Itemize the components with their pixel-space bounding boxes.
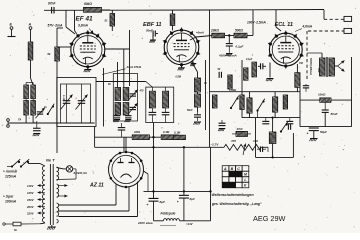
svg-text:220V etwa: 220V etwa: [137, 221, 153, 225]
coil L11 osc a: [24, 101, 29, 116]
label R7 500&#937;: [235, 29, 243, 33]
wire right riser x210.5: [209, 147, 211, 221]
capacitor C3 screen bypass: [226, 36, 233, 53]
label tiny i: [187, 109, 193, 112]
speaker arrow symbol: [334, 61, 345, 72]
wire EF41 right pin to node: [105, 48, 130, 50]
transformer T1 secondary HV winding: [57, 203, 59, 216]
wire EF41 pin risers: [104, 62, 118, 127]
transformer T1 secondary small winding: [57, 220, 59, 223]
coil L10 antenna RF b: [31, 85, 36, 99]
wire dashed output bottom: [308, 30, 344, 32]
wire output left vertical: [299, 82, 301, 127]
label C20 8uF: [190, 197, 195, 201]
svg-text:4,6mA: 4,6mA: [302, 25, 313, 29]
coil L15 osc pack b1: [123, 88, 129, 101]
wire AGC line: [95, 136, 185, 138]
coil L1 antenna coupling: [28, 42, 33, 60]
svg-text:8μF: 8μF: [160, 200, 165, 204]
resistor R10: [252, 62, 257, 77]
wire T2 top leads: [307, 53, 322, 58]
svg-text:125mA: 125mA: [5, 175, 17, 179]
svg-text:≈0mA: ≈0mA: [196, 31, 204, 35]
variable capacitor VC1: [61, 84, 73, 123]
resistor R13 AVC: [228, 75, 232, 89]
terminal pickup left: [7, 119, 10, 128]
svg-text:AEG 29W: AEG 29W: [253, 214, 286, 223]
terminal speaker plug 2: [344, 28, 352, 33]
coil L4 IF2 primary: [192, 62, 201, 95]
svg-text:K: K: [244, 184, 247, 188]
wire feedback bottom: [256, 156, 294, 158]
coil L13 osc pack a1: [115, 88, 121, 101]
wire feedback right riser: [292, 133, 294, 157]
label -2.7V: [211, 143, 220, 147]
fuse F1 mains: [3, 222, 45, 232]
switch S1 band switch: [47, 104, 55, 115]
resistor R8 tone: [320, 98, 331, 102]
label R15: [134, 130, 141, 134]
wire EF41 control grid to left bus: [57, 46, 71, 48]
transformer T2 secondary: [329, 58, 335, 76]
wire tap 150V: [27, 198, 45, 202]
svg-text:Feldspule: Feldspule: [161, 212, 176, 216]
svg-text:97nF: 97nF: [48, 2, 56, 6]
coil L7 IF1 primary: [149, 91, 155, 108]
label tiny g: [108, 83, 111, 86]
capacitor C4 tone: [322, 100, 329, 127]
switch S5 contact: [280, 122, 288, 133]
wire EF41 grid drop b: [75, 10, 77, 33]
wire R7 to B+ drop: [247, 35, 253, 37]
coil L16 osc pack b2: [123, 103, 129, 116]
wire AZ11 top to B+ line: [125, 137, 127, 152]
resistor R3 AVC on left bus: [55, 47, 60, 61]
wire R8 right lead: [331, 99, 352, 101]
transformer T1 secondary heater winding: [57, 184, 59, 197]
label Feldspule: [161, 212, 176, 216]
svg-text:47nF: 47nF: [236, 127, 244, 131]
capacitor C14 IF1: [162, 108, 170, 123]
trimmer TC3: [128, 103, 137, 114]
svg-text:150: 150: [299, 62, 304, 65]
wire left bus top tick: [57, 27, 63, 29]
svg-text:+: +: [147, 203, 149, 207]
label 2mA 47k&#937; leader: [102, 65, 142, 75]
wire vertical x242: [241, 60, 243, 118]
wire HV feed b: [59, 187, 130, 212]
label VR1 470: [230, 139, 236, 143]
potentiometer VR1 zigzag: [0, 0, 1, 1]
label tiny f: [299, 62, 304, 65]
svg-text:6,3V/0,3A: 6,3V/0,3A: [74, 171, 87, 175]
coil L2 AF choke: [247, 92, 252, 118]
resistor R15 4M: [132, 135, 149, 140]
wire rail drop to ECL11: [276, 10, 281, 31]
label C4 50nF: [331, 112, 338, 116]
wire AGC to AZ11 top: [123, 137, 125, 151]
svg-text:125V: 125V: [27, 191, 35, 195]
svg-text:40: 40: [203, 82, 207, 85]
wire pilot top lead: [57, 168, 67, 169]
wire rail drop to R5: [172, 10, 174, 14]
wire B+ node vertical x153.5: [152, 123, 154, 199]
wire front bus: [26, 115, 33, 123]
wire output bottom: [300, 126, 352, 128]
wire AZ11 cathode line: [144, 171, 211, 191]
wire HV feed a: [59, 185, 117, 206]
coil L12 osc b: [31, 101, 36, 116]
label 3.8mA with arrow: [78, 24, 94, 34]
resistor R17: [174, 130, 186, 139]
ground C2: [149, 37, 156, 43]
resistor R7 decoupler: [234, 33, 247, 38]
svg-text:5k: 5k: [47, 52, 51, 56]
resistor R11 cathode: [295, 64, 300, 92]
svg-text:100V–2,5mA: 100V–2,5mA: [247, 20, 266, 24]
table wave switch positions: [222, 166, 249, 188]
svg-text:500Ω: 500Ω: [235, 29, 243, 33]
label tiny b: [176, 76, 182, 79]
svg-text:Ne T: Ne T: [46, 157, 55, 162]
capacitor C10: [194, 112, 201, 121]
tube V2 EBF11 duo-diode pentode: [163, 28, 200, 68]
wire coil links: [26, 83, 33, 101]
capacitor C2 grid bypass: [153, 31, 158, 40]
label tube V4 AZ11: [89, 183, 104, 189]
svg-text:ges. Wellenschalterstlg. „Lang: ges. Wellenschalterstlg. „Lang“: [211, 202, 262, 206]
switch S4 mains on-off: [7, 159, 29, 167]
svg-text:≈ normal: ≈ normal: [3, 169, 17, 173]
wire pot right: [260, 147, 268, 152]
svg-text:M: M: [244, 173, 247, 177]
svg-text:3,8mA: 3,8mA: [78, 24, 89, 28]
svg-text:+: +: [177, 200, 179, 204]
wire mains to primary top: [28, 164, 45, 167]
label C3 0.1uF: [236, 44, 244, 48]
svg-text:50nF: 50nF: [146, 29, 153, 33]
ground C16: [113, 120, 120, 123]
switch S3: [230, 96, 239, 109]
label Wellenschalterstellungen: [212, 193, 254, 197]
resistor R5 plate feed: [170, 14, 175, 26]
svg-text:2mA 47kΩ: 2mA 47kΩ: [126, 65, 142, 69]
label normal current: [3, 169, 17, 178]
capacitor C9: [286, 118, 293, 124]
label right voltage: [186, 222, 194, 226]
resistor R12: [283, 95, 287, 109]
svg-text:50nF: 50nF: [331, 112, 338, 116]
label AEG 29W: [253, 214, 286, 223]
svg-text:200V: 200V: [26, 205, 35, 209]
svg-text:8μF: 8μF: [190, 197, 195, 201]
enclosure oscillator pack box: [113, 74, 137, 122]
svg-text:20kΩ: 20kΩ: [210, 29, 219, 33]
svg-text:≈13V: ≈13V: [186, 222, 194, 226]
label tiny k: [18, 118, 21, 122]
wire L19 bottom: [272, 144, 274, 159]
ground C3: [225, 54, 232, 57]
label tube V3 ECL11: [275, 22, 293, 28]
wire tap 125V: [27, 191, 45, 195]
potentiometer VR1 wiper: [243, 144, 246, 156]
transformer IF1 shield box: [146, 87, 174, 122]
label tiny d: [218, 68, 221, 71]
label tiny a: [139, 90, 145, 93]
ground C5: [309, 139, 317, 142]
enclosure tuning gang inner box: [61, 84, 91, 123]
tube V3 ECL11 triode-pentode: [268, 31, 304, 69]
trimmer TC2: [128, 90, 137, 101]
svg-text:150: 150: [253, 139, 258, 143]
label C2: [146, 29, 153, 33]
capacitor C22 tone: [252, 146, 266, 152]
label R1 60k&#937;: [84, 2, 92, 6]
label R8 10k&#937;: [318, 92, 326, 96]
svg-text:150V: 150V: [27, 198, 35, 202]
tube V1 EF41 pentode: [69, 30, 106, 69]
svg-text:Si: Si: [14, 228, 17, 232]
capacitor C11: [219, 72, 221, 78]
capacitor C8: [262, 118, 269, 124]
wire grid line x205.5: [205, 60, 207, 130]
svg-text:≈ Spar: ≈ Spar: [3, 194, 14, 198]
wire R5 to EBF11 top: [172, 26, 174, 31]
svg-text:L: L: [244, 178, 246, 182]
resistor R6 screen feed: [212, 33, 225, 38]
capacitor C7 cathode bypass: [303, 84, 309, 92]
lamp pilot 6.3V: [66, 166, 72, 172]
label R16: [163, 130, 170, 134]
wire bus x94.6: [94, 127, 96, 148]
label 30mA: [196, 31, 204, 35]
wire HV feed c: [59, 182, 138, 217]
label R3: [47, 52, 51, 56]
svg-text:51: 51: [105, 19, 109, 23]
svg-text:C: C: [237, 167, 240, 171]
transformer T2 core: [326, 57, 327, 77]
wire IF1 top leads: [152, 87, 165, 91]
svg-text:220V: 220V: [26, 212, 35, 216]
transformer T1 secondary pilot winding: [57, 167, 59, 180]
svg-text:A: A: [223, 167, 227, 171]
capacitor C16: [114, 116, 121, 118]
svg-text:A: A: [28, 23, 32, 27]
svg-text:TA: TA: [18, 118, 21, 122]
wire EBF11 screen to R6: [190, 36, 212, 41]
label 220V etwa: [137, 221, 176, 225]
wire dashed output top: [324, 18, 344, 20]
ground T1 core: [47, 225, 56, 230]
wire antenna lead: [30, 29, 32, 42]
label tiny h: [44, 106, 47, 109]
wire tap 200V: [26, 205, 45, 209]
label VR1 150: [253, 139, 258, 143]
svg-text:0,5M: 0,5M: [176, 76, 182, 79]
coil L8 IF1 secondary: [163, 91, 169, 108]
svg-text:+: +: [307, 132, 309, 136]
svg-text:B: B: [231, 167, 234, 171]
wire heater stub b: [58, 194, 68, 197]
capacitor C15 to ground: [33, 121, 41, 131]
transformer T1 primary winding: [42, 166, 44, 222]
label 57V-2mA: [48, 24, 63, 28]
capacitor C19 8uF: [147, 198, 159, 220]
ground C15: [33, 134, 41, 137]
coil L3: [273, 92, 278, 118]
capacitor C13 IF1: [149, 108, 157, 123]
label spar current: [3, 194, 17, 203]
wire EF41 plate line: [96, 81, 146, 83]
potentiometer VR1 element: [224, 144, 261, 150]
wire EF41 grid drop a: [66, 10, 75, 34]
coil L5 IF2 secondary: [195, 94, 201, 112]
svg-text:470: 470: [139, 90, 145, 93]
label ges Wellenschalterstlg Lang: [211, 202, 262, 206]
wire AF bus y117.6: [242, 117, 300, 119]
label tiny e: [246, 58, 253, 61]
label 100V-2.5mA: [247, 20, 266, 24]
svg-text:–2,7V: –2,7V: [211, 143, 220, 147]
label C1 97nF: [48, 2, 56, 6]
wire plate feed x209.5: [209, 10, 211, 147]
wire dashed plate feed: [306, 31, 308, 80]
svg-text:80: 80: [108, 83, 111, 86]
capacitor C20 8uF: [177, 195, 189, 220]
svg-text:50: 50: [218, 68, 221, 71]
svg-text:50nF: 50nF: [187, 109, 193, 112]
svg-text:0,5MΩ: 0,5MΩ: [229, 89, 236, 92]
label R6 20k&#937;: [210, 29, 219, 33]
svg-text:10kΩ: 10kΩ: [318, 92, 326, 96]
ground EBF11 diode: [190, 61, 196, 67]
wire bus y123: [8, 122, 95, 124]
wire left bus vertical: [56, 28, 58, 153]
capacitor C1 97nF: [52, 7, 54, 14]
transformer T2 output primary: [320, 58, 326, 76]
coil L17 field coil: [154, 219, 211, 221]
label 4.6mA: [295, 25, 313, 32]
svg-text:50μF: 50μF: [320, 130, 327, 134]
wire B+ drop x253: [252, 10, 254, 36]
wire B+ top rail: [44, 9, 324, 12]
ground IF2: [193, 122, 201, 125]
ground C17: [125, 120, 132, 123]
wire AF line to pot: [95, 146, 224, 148]
label NeT: [46, 157, 55, 162]
coil L9 antenna RF a: [24, 85, 29, 99]
svg-text:0,1μF: 0,1μF: [236, 44, 244, 48]
svg-text:AZ 11: AZ 11: [89, 183, 104, 189]
wire feedback left riser: [255, 118, 257, 158]
capacitor C21: [288, 124, 290, 130]
label C19 8uF: [160, 200, 165, 204]
svg-text:550: 550: [317, 68, 321, 73]
coil L6: [212, 95, 217, 108]
wire AF bus y91.7: [210, 91, 300, 93]
transformer T1 core: [50, 164, 53, 225]
capacitor C12: [219, 120, 226, 126]
wire R6-R7 junction: [225, 34, 234, 36]
coil L14 osc pack a2: [115, 103, 121, 116]
wire right border vertical: [351, 57, 353, 127]
wire L1 bottom to band switch: [31, 60, 34, 85]
svg-text:570V≈28mA: 570V≈28mA: [309, 58, 313, 75]
enclosure tuning gang outer box: [57, 78, 96, 127]
label VC1: [62, 95, 64, 101]
svg-text:EBF 11: EBF 11: [143, 22, 162, 28]
svg-text:0,1M: 0,1M: [174, 130, 181, 134]
label L18: [236, 127, 244, 131]
terminal speaker plug 1: [344, 16, 352, 21]
svg-text:470: 470: [230, 139, 236, 143]
svg-text:100mA: 100mA: [5, 200, 17, 204]
ground EF41 cathode: [84, 67, 92, 72]
label C5 50uF: [320, 130, 327, 134]
capacitor C17: [125, 116, 132, 118]
capacitor C5 electrolytic: [307, 128, 319, 138]
wire IF1 feed corner: [146, 82, 153, 88]
wire pilot return: [57, 169, 77, 180]
coil L19 feedback: [269, 132, 276, 144]
wire B+ corner to dashes: [323, 10, 325, 20]
wire tap 220V: [26, 211, 45, 215]
svg-text:57V–2mA: 57V–2mA: [48, 24, 63, 28]
svg-text:Wellenschalterstellungen: Wellenschalterstellungen: [212, 193, 254, 197]
label tiny j: [229, 89, 236, 92]
svg-text:3–12: 3–12: [62, 95, 64, 101]
variable capacitor VC2: [76, 84, 88, 123]
tube V4 AZ11 rectifier: [109, 151, 144, 189]
svg-text:1MΩ: 1MΩ: [134, 130, 141, 134]
coil L18 coupling: [232, 131, 251, 136]
switch S2 tone switch: [256, 99, 264, 118]
wire detector riser x123.8: [123, 49, 125, 88]
wire tap 110V: [27, 184, 45, 188]
svg-text:0,3M: 0,3M: [163, 130, 170, 134]
wire coil riser: [272, 117, 274, 133]
wire node line x130: [129, 30, 131, 86]
label R2: [105, 19, 109, 23]
resistor R14: [240, 95, 244, 110]
label tube V1 EF41: [76, 15, 93, 22]
node A antenna terminal: [28, 23, 32, 30]
svg-text:ECL 11: ECL 11: [275, 22, 293, 28]
wire rail to R2: [102, 9, 111, 11]
ground EBF11 cathode: [178, 65, 185, 71]
label 570V~28mA rotated: [309, 58, 313, 75]
capacitor C6 coupling: [258, 63, 266, 69]
svg-text:EF 41: EF 41: [76, 15, 93, 22]
svg-text:110V: 110V: [27, 184, 34, 188]
resistor R2 screen dropper: [110, 10, 115, 31]
svg-text:60kΩ: 60kΩ: [84, 2, 92, 6]
label 430V-0.2mA: [218, 54, 237, 58]
trimmer TC1: [35, 108, 44, 119]
wire R8 left lead: [300, 99, 320, 101]
resistor R16 0.3M: [161, 135, 178, 140]
resistor R9 grid leak: [244, 68, 248, 80]
capacitor C18: [118, 123, 126, 137]
svg-text:1k: 1k: [44, 106, 47, 109]
svg-text:E: E: [10, 23, 13, 27]
label tube V2 EBF11: [143, 22, 162, 28]
ground C12: [218, 129, 225, 132]
label lamp 6.3V 0.3A: [74, 171, 87, 175]
node E antenna-earth terminal: [8, 23, 16, 37]
resistor R1 60k: [84, 7, 102, 12]
label tiny c: [203, 82, 207, 85]
